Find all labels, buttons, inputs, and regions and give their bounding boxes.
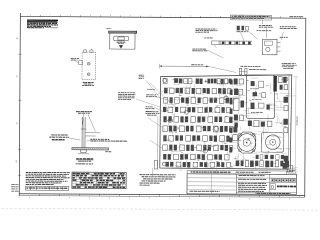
detail A label <box>117 42 126 44</box>
svg-text:3: 3 <box>289 199 291 201</box>
transformer T2 round can <box>261 133 284 153</box>
capacitor C1 symbol cluster <box>236 26 248 32</box>
torque note right <box>282 63 297 69</box>
svg-text:3: 3 <box>129 198 131 200</box>
svg-text:7: 7 <box>209 198 211 200</box>
component row 9 <box>163 154 229 160</box>
flag notes text block <box>26 172 70 185</box>
right margin dimension line <box>293 77 298 168</box>
detail B caption <box>82 82 94 86</box>
plus mark fiducial <box>204 80 207 83</box>
component row 6 <box>163 126 233 133</box>
shield can enclosure <box>246 75 274 119</box>
callout with bracket line <box>145 111 159 169</box>
relay K1 side lug <box>76 61 83 65</box>
bottom right half row <box>256 155 285 160</box>
section A-A caption <box>76 158 94 164</box>
pcb board outline <box>160 74 292 169</box>
svg-text:B: B <box>16 160 18 163</box>
svg-text:D: D <box>271 184 275 189</box>
component row 10 <box>166 162 231 168</box>
general notes text block <box>27 19 58 28</box>
typ callout small <box>139 75 161 98</box>
pcb cross-section plate <box>72 148 109 150</box>
svg-text:1: 1 <box>169 198 171 200</box>
svg-text:4: 4 <box>109 197 111 199</box>
svg-text:8: 8 <box>29 197 31 199</box>
callout top right <box>280 26 297 29</box>
transistor can Q3 <box>224 96 228 100</box>
title block <box>187 174 297 195</box>
left margin leader lines <box>148 83 176 148</box>
screw fastener shaft <box>81 117 101 148</box>
svg-text:5: 5 <box>89 197 91 199</box>
bottom dense component row <box>236 160 289 167</box>
detail A index arrow <box>119 45 123 48</box>
paper edge shadow line <box>1 208 317 210</box>
callout view rotated <box>192 49 223 58</box>
adjustable resistor R30 <box>263 39 281 55</box>
components below shield can <box>233 120 272 140</box>
cement note block <box>118 92 160 107</box>
svg-text:6: 6 <box>229 198 231 200</box>
parts list table <box>72 172 126 189</box>
revision strip box <box>230 15 271 24</box>
mounting hole dimension line <box>160 64 237 73</box>
bottom left corner bracket <box>153 160 157 176</box>
svg-text:7: 7 <box>49 197 51 199</box>
callout ref designators upper <box>195 29 217 33</box>
callout adj resistor <box>256 29 271 32</box>
section A-A solder callout <box>76 111 96 132</box>
torque note <box>87 139 128 142</box>
transistor can Q4 <box>214 127 219 132</box>
svg-text:F: F <box>16 75 18 78</box>
callout J-TAB <box>259 25 273 28</box>
left margin callout texts <box>145 89 157 112</box>
transistor can Q2 <box>203 149 207 153</box>
svg-text:5: 5 <box>249 198 251 200</box>
transformer T1 octagon mount <box>238 132 256 153</box>
transistor can Q5 <box>184 110 188 114</box>
bottom right corner cluster <box>283 163 293 172</box>
capacitor C12 in detail A <box>114 36 129 41</box>
application box <box>288 169 296 173</box>
component row 1 <box>163 78 231 84</box>
svg-text:H: H <box>16 37 18 40</box>
component row 3 <box>164 97 233 104</box>
mid column components <box>233 78 244 127</box>
component row 8 <box>163 145 233 152</box>
figure caption strip <box>187 170 287 174</box>
when used note <box>240 66 266 70</box>
relay K1 callout text <box>71 58 79 60</box>
relay K1 terminal pins <box>84 49 93 53</box>
edge connector P1 <box>273 76 287 92</box>
right edge component column <box>283 97 288 162</box>
svg-text:2: 2 <box>149 198 151 200</box>
margin text bottom left <box>11 184 18 192</box>
component row 4 <box>163 107 230 113</box>
resistor clamp callout <box>49 134 80 140</box>
callout 1 PL <box>204 37 219 44</box>
sheet number text <box>290 16 304 17</box>
component row 5 <box>163 116 232 123</box>
circuit trace texture <box>163 78 296 175</box>
svg-text:6: 6 <box>69 197 71 199</box>
relay K1 mounting holes <box>87 62 90 75</box>
svg-text:D: D <box>16 122 18 125</box>
leader lines to components <box>214 28 283 48</box>
list of materials note <box>140 174 176 186</box>
component row 2 <box>164 88 231 94</box>
svg-text:8: 8 <box>189 198 191 200</box>
svg-text:4: 4 <box>269 198 271 200</box>
border zone tick marks <box>15 15 300 201</box>
document strip below notes <box>25 186 68 190</box>
board mounting holes <box>162 77 288 167</box>
detail view A enclosure <box>106 28 136 49</box>
nut below plate <box>78 150 89 154</box>
callout 1-48V <box>280 36 288 39</box>
terminal rail TB1 <box>219 41 252 45</box>
ref label <box>105 150 111 153</box>
bridge column components <box>229 79 232 152</box>
transistor can Q1 <box>168 118 172 122</box>
drawing sheet border frame <box>19 13 306 198</box>
standoff posts above board <box>239 68 247 74</box>
component row 7 <box>163 135 229 142</box>
